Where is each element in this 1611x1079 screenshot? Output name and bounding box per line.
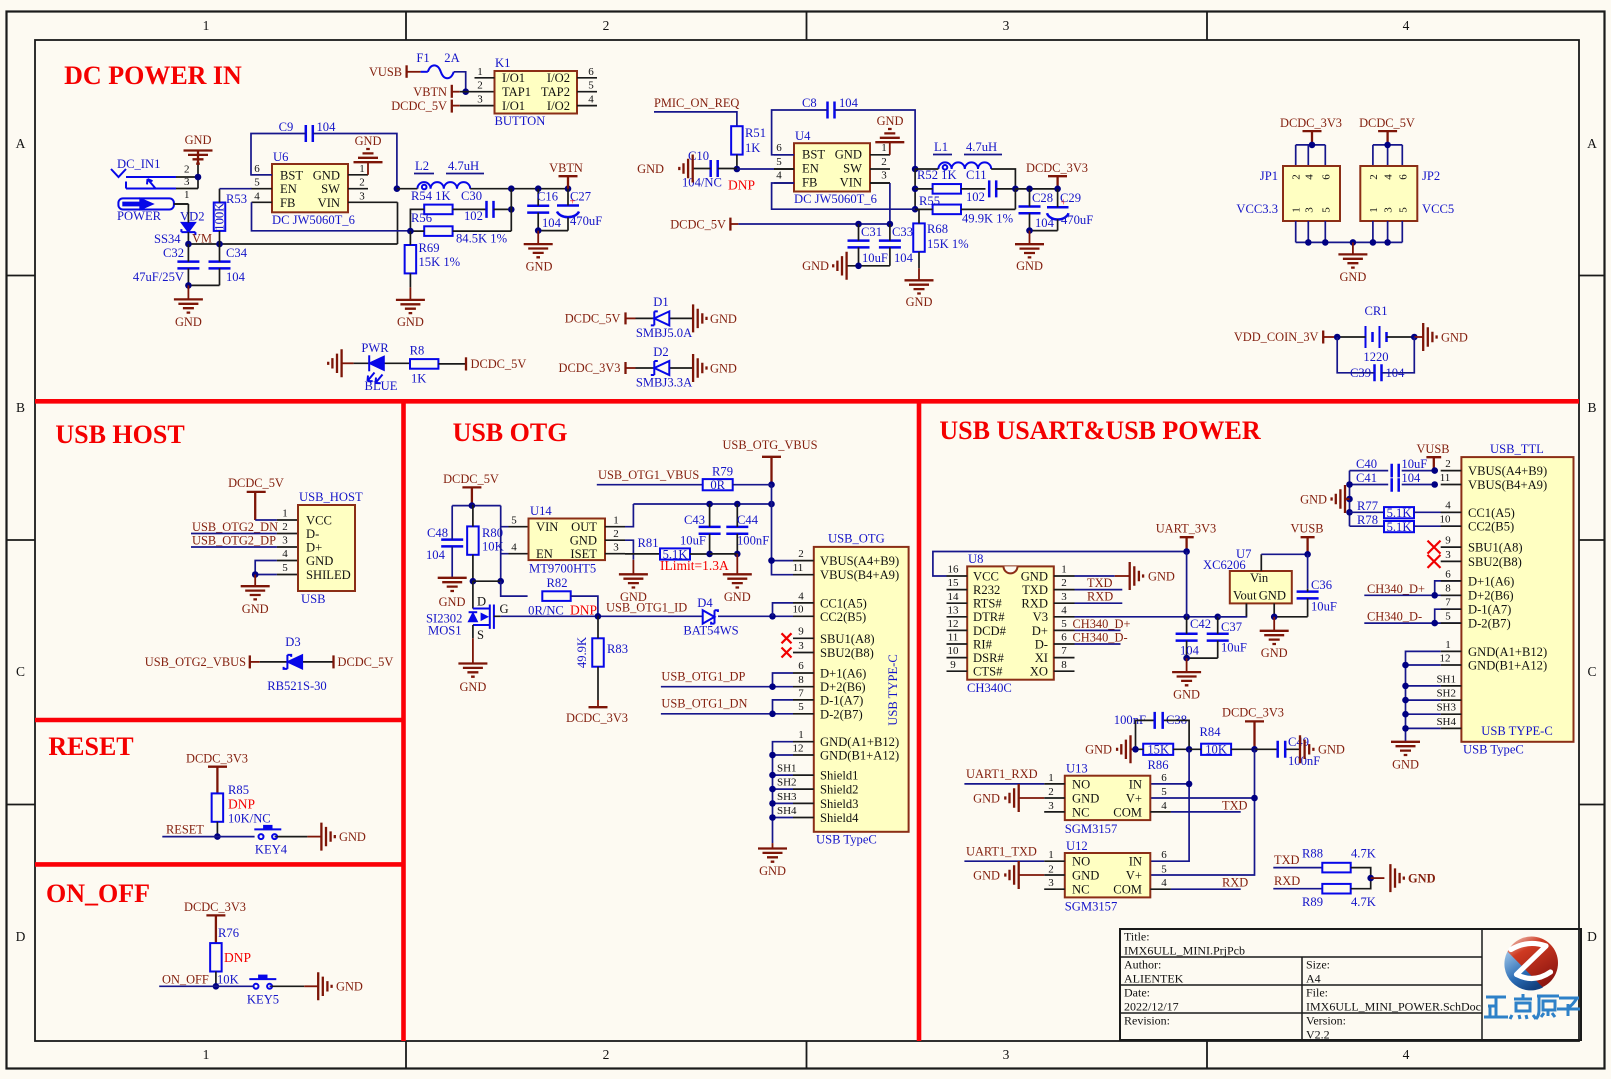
inductor L1 4.7uH — [915, 140, 1015, 189]
svg-text:C16: C16 — [537, 190, 558, 204]
ground GND below R69 — [396, 287, 425, 329]
IC U13 SGM3157 — [1044, 762, 1171, 837]
svg-text:12: 12 — [793, 742, 804, 754]
svg-text:VIN: VIN — [318, 196, 340, 210]
svg-text:V+: V+ — [1126, 869, 1142, 883]
junction TTL pin12 — [1402, 662, 1409, 669]
svg-text:49.9K 1%: 49.9K 1% — [962, 212, 1014, 226]
svg-text:R52 1K: R52 1K — [917, 168, 957, 182]
svg-text:D-: D- — [306, 527, 319, 541]
svg-text:COM: COM — [1113, 805, 1142, 819]
net label CH340_D+ — [1073, 617, 1131, 631]
junction pin2 — [768, 557, 775, 564]
svg-text:5: 5 — [776, 156, 782, 168]
junction R80 bottom — [470, 578, 477, 585]
svg-text:DCDC_5V: DCDC_5V — [670, 218, 726, 232]
switch KEY5 — [247, 975, 304, 1006]
svg-text:R83: R83 — [607, 642, 628, 656]
svg-text:12: 12 — [1440, 652, 1451, 664]
junction SH3 — [769, 800, 776, 807]
svg-text:102: 102 — [966, 190, 985, 204]
junction R77 left — [1346, 509, 1353, 516]
junction Vin VUSB — [1304, 551, 1311, 558]
svg-text:NO: NO — [1072, 855, 1090, 869]
net label UART1_RXD — [964, 767, 1044, 784]
svg-text:U6: U6 — [273, 150, 288, 164]
svg-text:R53: R53 — [226, 192, 247, 206]
svg-text:DCDC_3V3: DCDC_3V3 — [1026, 161, 1088, 175]
svg-text:FB: FB — [280, 196, 295, 210]
resistor R68 15K — [913, 209, 969, 268]
capacitor C9 104 — [251, 120, 397, 189]
junction jack pin2 — [195, 174, 202, 181]
svg-text:6: 6 — [254, 163, 260, 175]
red section divider lines — [35, 399, 1579, 1041]
svg-text:OUT: OUT — [571, 520, 597, 534]
diode D2 SMBJ3.3A — [559, 345, 737, 390]
svg-text:IN: IN — [1129, 855, 1142, 869]
junction TTL SH2 — [1402, 697, 1409, 704]
svg-text:CC1(A5): CC1(A5) — [1468, 506, 1515, 520]
svg-text:1: 1 — [613, 515, 619, 527]
svg-text:10uF: 10uF — [862, 251, 888, 265]
inductor L2 4.7uH — [397, 159, 568, 189]
svg-text:5: 5 — [511, 515, 517, 527]
svg-text:4: 4 — [798, 590, 804, 602]
svg-text:R232: R232 — [973, 583, 1000, 597]
svg-text:470uF: 470uF — [570, 214, 602, 228]
capacitor C32 47uF/25V — [133, 244, 199, 285]
svg-text:C37: C37 — [1221, 620, 1242, 634]
svg-text:SH4: SH4 — [1436, 716, 1456, 728]
svg-text:CH340C: CH340C — [967, 681, 1012, 695]
junction EN U4 node — [734, 166, 741, 173]
wire gate to D4 — [501, 615, 793, 617]
svg-text:GND(A1+B12): GND(A1+B12) — [820, 735, 899, 749]
junction C44 top — [734, 501, 741, 508]
svg-text:5: 5 — [1161, 863, 1167, 875]
svg-text:1: 1 — [1061, 564, 1067, 576]
svg-text:DCDC_3V3: DCDC_3V3 — [559, 361, 621, 375]
svg-text:U14: U14 — [530, 504, 552, 518]
power port DCDC_5V at K1 — [391, 99, 494, 113]
junction C43 top — [706, 501, 713, 508]
capacitor C49 100nF — [1255, 735, 1321, 768]
junction FB node — [407, 228, 414, 235]
svg-text:USB_OTG1_ID: USB_OTG1_ID — [606, 601, 687, 615]
svg-text:C10: C10 — [688, 149, 709, 163]
svg-text:2: 2 — [881, 156, 887, 168]
svg-text:C40: C40 — [1356, 457, 1377, 471]
power port DCDC_3V3 at R76 — [184, 900, 246, 943]
resistor R89 4.7K — [1302, 878, 1376, 909]
svg-text:47uF/25V: 47uF/25V — [133, 270, 184, 284]
capacitor C34 104 — [209, 244, 248, 285]
net label RESET — [162, 823, 254, 837]
svg-text:USB_OTG1_DP: USB_OTG1_DP — [661, 670, 745, 684]
junction JP bottom 1 — [1305, 239, 1312, 246]
svg-text:1: 1 — [1368, 207, 1380, 213]
section title USB USART&USB POWER — [939, 416, 1260, 445]
svg-text:2: 2 — [477, 80, 483, 92]
capacitor C33 104 — [879, 224, 914, 266]
svg-text:TAP2: TAP2 — [541, 85, 570, 99]
svg-text:FB: FB — [802, 175, 817, 189]
net label USB_OTG1_DN — [661, 697, 793, 714]
svg-text:CH340_D+: CH340_D+ — [1367, 582, 1425, 596]
junction SW U4 node — [912, 166, 919, 173]
svg-text:SHILED: SHILED — [306, 568, 351, 582]
junction RESET node — [214, 833, 221, 840]
capacitor C42 104 — [1176, 617, 1211, 658]
svg-text:84.5K 1%: 84.5K 1% — [456, 232, 508, 246]
svg-text:R68: R68 — [927, 222, 948, 236]
svg-text:SBU1(A8): SBU1(A8) — [820, 632, 875, 646]
svg-text:GND: GND — [1148, 569, 1175, 583]
svg-text:3: 3 — [1061, 591, 1067, 603]
ground GND at USB_HOST — [241, 575, 270, 617]
svg-text:SH2: SH2 — [777, 777, 797, 789]
junction R79 right — [768, 481, 775, 488]
resistor R56 84.5K — [410, 211, 511, 246]
svg-text:SBU2(B8): SBU2(B8) — [1468, 555, 1522, 569]
svg-text:4: 4 — [1445, 500, 1451, 512]
IC U12 SGM3157 — [1044, 839, 1171, 914]
junction DN — [769, 711, 776, 718]
svg-text:DC JW5060T_6: DC JW5060T_6 — [794, 192, 877, 206]
svg-text:VUSB: VUSB — [1416, 442, 1449, 456]
net label CH340_D+ at TTL — [1364, 581, 1461, 596]
junction TTL SH4 — [1402, 725, 1409, 732]
ground GND at U14 — [619, 560, 648, 604]
wire JP1 JP2 bottom to GND — [1296, 221, 1403, 242]
svg-text:10: 10 — [793, 604, 805, 616]
svg-text:D+: D+ — [306, 541, 322, 555]
svg-text:104: 104 — [317, 120, 337, 134]
svg-text:NC: NC — [1072, 883, 1090, 897]
junction VM at R53 — [216, 241, 223, 248]
IC U4 DC JW5060T_6 — [774, 129, 890, 206]
svg-text:B: B — [16, 400, 25, 415]
svg-text:1: 1 — [359, 163, 365, 175]
LED PWR BLUE with resistor R8 — [328, 341, 410, 393]
wire V3 to UART_3V3 — [1075, 603, 1247, 616]
junction VBUS rail top — [768, 501, 775, 508]
svg-text:100K: 100K — [212, 203, 226, 231]
svg-text:R84: R84 — [1200, 725, 1222, 739]
svg-text:NC: NC — [1072, 805, 1090, 819]
svg-text:R82: R82 — [547, 576, 568, 590]
net label USB_OTG1_DP — [661, 670, 793, 687]
ground GND below U7 — [1260, 617, 1289, 660]
svg-text:DCDC_5V: DCDC_5V — [565, 312, 621, 326]
junction VBTN line at C30 riser — [508, 185, 515, 192]
net label CH340_D- — [1073, 631, 1128, 645]
junction C29 top — [1054, 186, 1061, 193]
wire OUT to C43 rail — [625, 504, 772, 527]
svg-text:11: 11 — [793, 562, 804, 574]
svg-text:2: 2 — [1291, 174, 1303, 180]
wire GND pins 1 12 SH — [773, 742, 794, 843]
wire GND pin U14 — [625, 540, 633, 560]
svg-text:RESET: RESET — [166, 823, 204, 837]
svg-text:2: 2 — [1048, 863, 1054, 875]
svg-text:2: 2 — [603, 18, 610, 33]
ground GND at KEY5 — [304, 972, 363, 1000]
wire VBUS pins 2 11 — [772, 561, 794, 575]
ground GND at C40 C41 — [1300, 485, 1349, 513]
svg-text:3: 3 — [1303, 207, 1315, 213]
svg-text:BAT54WS: BAT54WS — [683, 624, 738, 638]
svg-text:C29: C29 — [1060, 191, 1081, 205]
red X on pin 3 — [782, 648, 792, 658]
connector USB_TTL TYPE-C — [1436, 442, 1573, 757]
wire SW riser to R56 — [510, 189, 512, 231]
junction pin8 — [1431, 592, 1438, 599]
svg-text:4.7K: 4.7K — [1351, 847, 1376, 861]
junction SW node — [394, 185, 401, 192]
ground GND below C44 — [723, 554, 752, 604]
svg-text:BUTTON: BUTTON — [495, 114, 546, 128]
svg-text:6: 6 — [588, 66, 594, 78]
power port VDD_COIN_3V — [1234, 330, 1337, 344]
diode D3 RB521S-30 — [145, 635, 394, 693]
svg-text:104: 104 — [1401, 471, 1421, 485]
net label RXD at U12 — [1171, 876, 1248, 890]
svg-text:BST: BST — [802, 148, 825, 162]
svg-text:C42: C42 — [1190, 617, 1211, 631]
svg-text:XI: XI — [1035, 651, 1048, 665]
ground GND below C16 — [524, 231, 553, 274]
svg-text:IMX6ULL_MINI.PrjPcb: IMX6ULL_MINI.PrjPcb — [1124, 944, 1245, 958]
svg-text:TAP1: TAP1 — [502, 85, 531, 99]
svg-text:1220: 1220 — [1363, 350, 1388, 364]
svg-text:2: 2 — [1048, 786, 1054, 798]
wire VBUS riser — [771, 485, 773, 561]
svg-text:DCDC_3V3: DCDC_3V3 — [1222, 706, 1284, 720]
svg-text:DSR#: DSR# — [973, 651, 1004, 665]
svg-text:4.7uH: 4.7uH — [966, 140, 997, 154]
wire C32 C34 bottom — [188, 284, 219, 286]
power port DCDC_5V at U14 — [443, 472, 499, 506]
svg-text:SH1: SH1 — [1436, 673, 1456, 685]
junction C30 right — [508, 206, 515, 213]
junction JP bottom 2 — [1322, 239, 1329, 246]
svg-text:4.7K: 4.7K — [1351, 895, 1376, 909]
power port VBTN — [549, 161, 583, 189]
svg-text:15: 15 — [948, 577, 960, 589]
svg-text:U4: U4 — [795, 129, 811, 143]
svg-text:D+1(A6): D+1(A6) — [1468, 574, 1514, 588]
power port DCDC_5V at USB_HOST — [228, 476, 284, 520]
svg-text:5: 5 — [1397, 207, 1409, 213]
svg-text:Shield1: Shield1 — [820, 769, 858, 783]
wire pin1 USB_HOST — [255, 519, 298, 521]
svg-text:9: 9 — [950, 659, 956, 671]
svg-text:VCC5: VCC5 — [1422, 202, 1454, 216]
junction CR1 left — [1334, 334, 1341, 341]
svg-text:GND(B1+A12): GND(B1+A12) — [1468, 658, 1547, 672]
svg-text:3: 3 — [798, 640, 804, 652]
junction GND left — [1346, 496, 1353, 503]
svg-text:CTS#: CTS# — [973, 665, 1003, 679]
svg-text:DC JW5060T_6: DC JW5060T_6 — [272, 213, 355, 227]
svg-text:CH340_D+: CH340_D+ — [1073, 617, 1131, 631]
svg-text:DCDC_5V: DCDC_5V — [338, 655, 394, 669]
svg-text:3: 3 — [613, 542, 619, 554]
svg-text:GND: GND — [242, 602, 269, 616]
net label PMIC_ON_REQ — [654, 96, 739, 126]
svg-text:File:: File: — [1306, 986, 1328, 1000]
svg-text:6: 6 — [1445, 568, 1451, 580]
svg-text:15K 1%: 15K 1% — [927, 237, 969, 251]
resistor R84 10K boxed — [1189, 725, 1254, 757]
svg-text:5: 5 — [798, 701, 804, 713]
svg-text:12: 12 — [948, 618, 959, 630]
svg-text:RXD: RXD — [1087, 590, 1113, 604]
net label RXD at R89 — [1273, 874, 1322, 889]
wire UART_3V3 riser — [1186, 552, 1188, 617]
svg-text:GND: GND — [1318, 743, 1345, 757]
svg-text:10: 10 — [948, 645, 960, 657]
svg-text:V2.2: V2.2 — [1306, 1028, 1330, 1042]
svg-text:GND: GND — [637, 162, 664, 176]
svg-text:PMIC_ON_REQ: PMIC_ON_REQ — [654, 96, 739, 110]
svg-text:D+: D+ — [1032, 624, 1048, 638]
diode D4 BAT54WS — [683, 596, 772, 638]
svg-text:BLUE: BLUE — [365, 379, 398, 393]
junction SH2 — [769, 786, 776, 793]
resistor R81 5.1K boxed — [625, 536, 710, 561]
svg-text:3: 3 — [477, 94, 483, 106]
transistor MOS1 SI2302 — [426, 595, 509, 643]
svg-text:MT9700HT5: MT9700HT5 — [529, 562, 596, 576]
svg-text:VBUS(A4+B9): VBUS(A4+B9) — [1468, 464, 1547, 478]
resistor R86 15K boxed — [1136, 743, 1190, 772]
resistor R55 49.9K — [915, 189, 1015, 226]
connector JP1 — [1236, 166, 1340, 221]
svg-text:ON_OFF: ON_OFF — [162, 973, 209, 987]
net label TXD at U13 — [1171, 798, 1248, 812]
svg-text:R85: R85 — [228, 783, 249, 797]
connector USB_HOST — [282, 490, 363, 606]
svg-text:VIN: VIN — [536, 520, 558, 534]
svg-text:USB HOST: USB HOST — [55, 420, 184, 449]
resistor R52 1K — [915, 168, 985, 194]
power port DCDC_3V3 below R83 — [566, 700, 628, 725]
svg-text:GND: GND — [1085, 743, 1112, 757]
resistor R80 10K — [467, 506, 504, 582]
svg-text:C8: C8 — [802, 96, 817, 110]
svg-text:D+1(A6): D+1(A6) — [820, 667, 866, 681]
svg-text:D-2(B7): D-2(B7) — [1468, 617, 1511, 631]
svg-text:16: 16 — [948, 564, 960, 576]
ground GND at KEY4 — [307, 823, 365, 851]
junction pin5 gnd — [252, 571, 259, 578]
junction R82 drop — [497, 578, 504, 585]
svg-text:10K/NC: 10K/NC — [228, 812, 271, 826]
svg-text:4: 4 — [1403, 1047, 1410, 1062]
svg-text:DCDC_3V3: DCDC_3V3 — [566, 711, 628, 725]
svg-text:3: 3 — [1048, 877, 1054, 889]
svg-text:SH2: SH2 — [1436, 688, 1456, 700]
svg-text:3: 3 — [1048, 800, 1054, 812]
ground GND at C49 — [1300, 735, 1345, 763]
IC U6 DC JW5060T_6 — [251, 150, 369, 227]
svg-text:DNP: DNP — [224, 950, 251, 965]
svg-text:10uF: 10uF — [1311, 600, 1337, 614]
resistor R88 4.7K — [1302, 847, 1376, 879]
svg-text:5.1K: 5.1K — [1387, 520, 1412, 534]
svg-text:USB_OTG_VBUS: USB_OTG_VBUS — [722, 438, 817, 452]
section title ON_OFF — [46, 879, 150, 908]
svg-text:USB USART&USB POWER: USB USART&USB POWER — [939, 416, 1260, 445]
svg-text:2: 2 — [613, 528, 619, 540]
svg-text:D-1(A7): D-1(A7) — [1468, 603, 1511, 617]
svg-text:D-: D- — [1035, 637, 1048, 651]
svg-text:EN: EN — [802, 162, 819, 176]
svg-text:1K: 1K — [745, 141, 760, 155]
svg-text:6: 6 — [1161, 849, 1167, 861]
wire TTL GND pins 1 12 SH — [1406, 651, 1441, 741]
connector DC_IN1 power jack — [111, 157, 198, 223]
svg-text:L1: L1 — [934, 140, 948, 154]
section title DC POWER IN — [64, 61, 242, 90]
svg-text:USB_OTG: USB_OTG — [828, 532, 885, 546]
wire FB rail under U6 — [252, 202, 411, 231]
junction CC2 node — [769, 613, 776, 620]
wire jack pin2 to GND — [197, 164, 199, 177]
junction JP bottom 3 — [1350, 239, 1357, 246]
svg-text:CH340_D-: CH340_D- — [1367, 610, 1422, 624]
svg-text:DCDC_5V: DCDC_5V — [391, 99, 447, 113]
svg-text:GND: GND — [1339, 270, 1366, 284]
wire EN U4 — [737, 168, 794, 170]
svg-text:GND: GND — [526, 260, 553, 274]
svg-text:U12: U12 — [1066, 839, 1088, 853]
junction U7 GND — [1271, 614, 1278, 621]
junction TTL SH3 — [1402, 711, 1409, 718]
svg-text:1: 1 — [203, 1047, 210, 1062]
power port DCDC_5V VIN rail — [670, 218, 890, 232]
resistor R54 1K — [410, 189, 486, 231]
svg-text:GND: GND — [1392, 758, 1419, 772]
svg-text:D+2(B6): D+2(B6) — [1468, 589, 1514, 603]
connector JP2 — [1360, 166, 1454, 221]
svg-text:DC POWER IN: DC POWER IN — [64, 61, 242, 90]
svg-text:XO: XO — [1030, 665, 1048, 679]
power port DCDC_3V3 output — [1026, 161, 1088, 189]
net label CH340_D- at TTL — [1364, 609, 1461, 623]
svg-text:TXD: TXD — [1222, 798, 1248, 812]
svg-text:GND(B1+A12): GND(B1+A12) — [820, 749, 899, 763]
svg-text:TXD: TXD — [1087, 576, 1113, 590]
svg-text:R81: R81 — [638, 536, 659, 550]
svg-text:C: C — [16, 664, 25, 679]
svg-text:RTS#: RTS# — [973, 597, 1002, 611]
junction C31 top — [855, 221, 862, 228]
svg-text:Date:: Date: — [1124, 986, 1150, 1000]
IC U7 XC6206 — [1203, 547, 1292, 617]
junction SH4 — [769, 814, 776, 821]
svg-text:4: 4 — [1161, 800, 1167, 812]
net label TXD U8 — [1075, 576, 1123, 590]
wire DCDC_5V rail U14 — [452, 505, 501, 507]
svg-text:4: 4 — [1161, 877, 1167, 889]
svg-text:GND: GND — [397, 315, 424, 329]
svg-text:UART1_RXD: UART1_RXD — [966, 767, 1038, 781]
svg-text:SBU2(B8): SBU2(B8) — [820, 646, 874, 660]
